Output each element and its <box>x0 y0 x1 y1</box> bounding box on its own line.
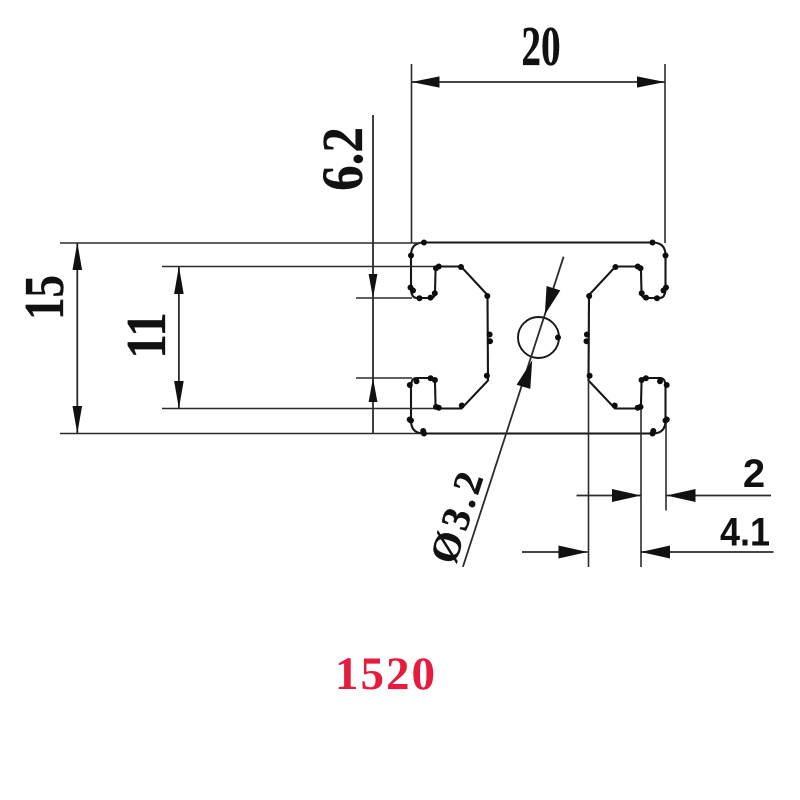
svg-text:11: 11 <box>116 312 178 359</box>
svg-text:15: 15 <box>13 275 75 320</box>
svg-text:2: 2 <box>743 452 765 496</box>
svg-text:20: 20 <box>521 16 560 77</box>
svg-text:Ø3.2: Ø3.2 <box>421 462 494 568</box>
svg-text:6.2: 6.2 <box>310 127 375 191</box>
svg-text:4.1: 4.1 <box>720 511 770 555</box>
svg-text:1520: 1520 <box>335 648 437 700</box>
